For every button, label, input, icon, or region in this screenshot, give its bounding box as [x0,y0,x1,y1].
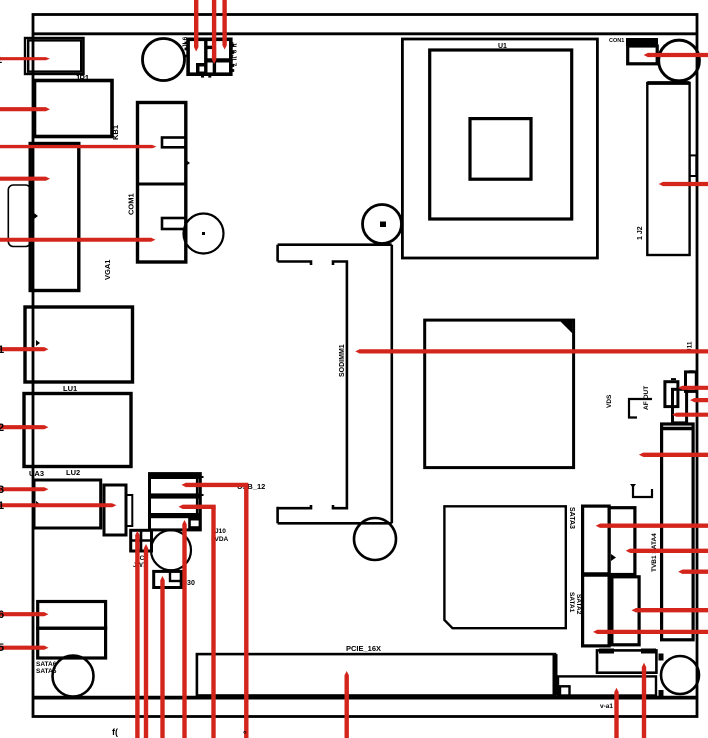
red leader LU1 [0,347,49,351]
connector KB1 [35,81,113,137]
svg-text:3: 3 [0,484,4,496]
red leader COM1 upper [0,145,157,149]
AF jack boxes [665,371,696,423]
red leader COM1 lower [0,238,156,242]
svg-text:2: 2 [0,422,4,434]
bracket symbol mid-right [633,484,652,497]
jumper block JL6 JL7 JL8 [185,39,235,77]
svg-text:U1: U1 [498,43,507,50]
svg-text:JL8 JL7: JL8 JL7 [230,42,237,67]
connector J2 [647,83,696,255]
red leader low box [614,688,619,738]
labels JC9 JW7 [133,555,148,569]
red leader VGA1 [0,176,50,180]
red leader UA3 [0,487,49,491]
svg-text:°: ° [243,729,247,738]
diode D30 [154,571,182,587]
red leader SODIMM long [355,349,708,354]
svg-text:COM1: COM1 [127,193,136,215]
svg-text:CON1: CON1 [609,38,624,44]
audio jack component right of UA3 [104,485,132,535]
SATA connector right top [609,508,635,575]
svg-text:AF OUT: AF OUT [643,386,650,410]
labels SATA6 SATA5 [36,661,57,675]
mounting hole right of SODIMM bottom [354,518,396,560]
svg-text:SATA1: SATA1 [568,592,575,613]
svg-text:1: 1 [0,54,2,66]
red leader USB_12 bottom horizontal [179,504,216,509]
red leader PCIE [344,671,349,738]
bottom edge label fragments [112,727,247,738]
red leader SATA right top [626,549,708,554]
connector UA3 [34,480,101,528]
red leader AF c [672,412,708,416]
low box right of PCIE [558,676,656,696]
connector SATA5 [38,628,106,658]
svg-text:VDS: VDS [606,394,613,408]
left edge label fragments [0,54,4,654]
red leader JL6 [194,0,199,52]
svg-text:J10: J10 [215,528,226,535]
red leader USB_12 top horizontal [182,483,249,488]
svg-text:SATA6: SATA6 [36,661,57,668]
svg-text:SATA2: SATA2 [575,594,582,615]
svg-text:SATA5: SATA5 [36,668,57,675]
connector COM1 [138,103,191,263]
connector VGA1 [8,144,79,291]
bracket near AF OUT [629,399,652,418]
tall connector TVB1/SATA4 [662,424,694,640]
svg-text:SODIMM1: SODIMM1 [339,344,346,377]
red leader D30 [160,576,165,738]
mounting hole top-right [659,40,700,81]
red leader JL7 [222,0,227,50]
red leader CON1 [644,53,708,57]
mounting hole bottom-left [53,656,94,697]
red leader JP1 [0,57,50,60]
PCIE_16X slot [197,654,555,695]
red leader JW7 b [144,544,149,738]
red leader audio jack [0,503,117,507]
red leader SATA left bottom [593,630,708,635]
svg-text:KB1: KB1 [111,125,120,140]
connector J3 bottom right [597,649,656,673]
labels J10 LVDA [211,528,229,543]
red leader SATA3 conn [596,523,708,528]
svg-text:6: 6 [0,609,4,621]
red leader SATA6 [0,612,49,616]
chip U1 [402,39,597,258]
SODIMM socket [278,245,392,524]
svg-text:f(: f( [112,727,118,737]
svg-text:PCIE_16X: PCIE_16X [346,644,381,653]
USB_12 connector [150,474,204,530]
svg-text:1 J2: 1 J2 [637,226,644,240]
red leader J3 [642,663,647,738]
svg-text:VGA1: VGA1 [103,260,112,280]
red leader USB_12 top vertical [244,485,248,738]
red leader TVB1 [639,453,708,458]
mounting hole top-left [143,39,185,81]
red leader JW7 a [135,531,140,738]
svg-text:LU2: LU2 [66,468,80,477]
svg-text:JL6: JL6 [182,36,189,48]
svg-text:LU1: LU1 [63,384,77,393]
connector LU2 [24,394,131,467]
component CON1 black [626,38,658,64]
red leader SATA right bottom [632,608,708,613]
red leader SATA5 [0,645,49,649]
svg-text:v-a1: v-a1 [600,703,613,710]
bottom chip (PCH) [444,506,565,628]
red leader USB_12 bottom vertical [211,507,215,738]
svg-text:1: 1 [0,500,4,512]
red leader KB1 [0,107,50,111]
svg-text:UA3: UA3 [29,469,44,478]
red leader LU2 [0,425,49,429]
mounting hole near COM1 [184,214,224,254]
svg-text:SATA3: SATA3 [568,507,575,529]
battery BT1 [151,530,191,570]
SATA connector right bottom [612,577,639,645]
mounting hole left of U1 [363,205,402,244]
red leader J2 [659,182,708,186]
svg-text:1: 1 [0,344,4,356]
svg-text:5: 5 [0,642,4,654]
red leader JL8 [212,0,217,64]
red leader AF b [690,398,708,402]
red leader AF a [678,386,708,390]
red leader tall conn stub [678,569,708,574]
mounting hole bottom-right [659,654,700,698]
connector JP1 [25,38,84,74]
red leader USB low [182,520,187,738]
central chip [425,320,574,468]
connector LU1 [25,307,133,382]
SATA connector left column [583,506,616,646]
jumper block JW7 [131,530,152,551]
connector SATA6 [38,602,106,629]
